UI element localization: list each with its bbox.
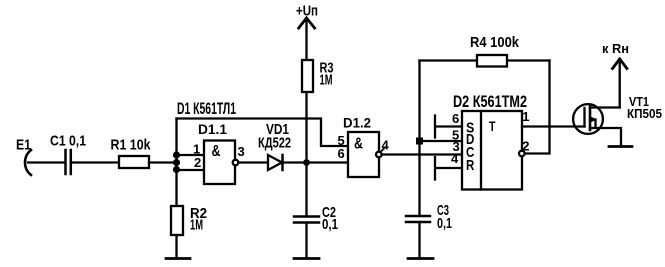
svg-text:R4 100k: R4 100k xyxy=(470,34,520,51)
node junction xyxy=(303,159,310,166)
svg-text:&: & xyxy=(354,135,363,152)
resistor R3 xyxy=(302,60,313,92)
wire R2 to ground xyxy=(175,235,177,258)
ground R2 xyxy=(166,257,190,260)
node k Rn arrow xyxy=(613,59,627,69)
capacitor C1 xyxy=(66,150,71,174)
node square junction xyxy=(416,138,423,145)
svg-text:КП505: КП505 xyxy=(627,106,662,121)
ground C2 xyxy=(294,257,319,260)
wire C1 to R1 xyxy=(72,161,119,163)
svg-text:2: 2 xyxy=(194,155,201,170)
svg-text:D1 К561ТЛ1: D1 К561ТЛ1 xyxy=(177,100,236,118)
svg-text:D2 К561ТМ2: D2 К561ТМ2 xyxy=(453,93,527,111)
svg-text:6: 6 xyxy=(452,111,459,126)
svg-text:к Rн: к Rн xyxy=(602,41,629,56)
svg-text:КД522: КД522 xyxy=(258,135,291,152)
wire main vertical +Up to C2 xyxy=(305,20,307,217)
wire feedback top to D1.2 pin5 xyxy=(177,119,349,147)
wire pin2 xyxy=(177,169,205,171)
op-amp D1.1 gate xyxy=(204,141,235,185)
svg-text:1M: 1M xyxy=(190,216,203,233)
resistor R4 xyxy=(477,55,507,67)
resistor R2 xyxy=(171,206,183,235)
pin 4 stub R xyxy=(435,157,462,180)
wire drain to load xyxy=(619,61,621,108)
wire R1 to input node xyxy=(149,161,177,163)
svg-text:T: T xyxy=(489,118,496,134)
svg-text:1M: 1M xyxy=(320,72,333,89)
svg-text:0,1: 0,1 xyxy=(322,216,338,233)
svg-text:+Uп: +Uп xyxy=(296,2,318,19)
pin 3 bubble xyxy=(233,160,239,166)
node junction dots xyxy=(173,151,180,158)
svg-text:1: 1 xyxy=(522,109,529,124)
svg-text:4: 4 xyxy=(451,151,459,166)
pin 4 bubble xyxy=(376,152,382,158)
ground VT1 xyxy=(609,145,632,148)
electrode E1 xyxy=(25,150,31,175)
wire D node to D2 pin5 xyxy=(420,140,463,142)
wire E1 to C1 xyxy=(28,161,65,163)
op-amp D1.2 gate xyxy=(348,132,379,177)
ground C3 xyxy=(408,257,433,260)
svg-text:R1 10k: R1 10k xyxy=(111,137,152,154)
wire VD1 to node xyxy=(283,161,307,163)
svg-text:0,1: 0,1 xyxy=(437,215,452,232)
svg-text:C1 0,1: C1 0,1 xyxy=(50,133,86,150)
power +Up arrow xyxy=(299,18,315,28)
capacitor C3 xyxy=(406,216,430,222)
wire D1.2 out to D2 pinC xyxy=(382,153,462,155)
svg-text:3: 3 xyxy=(238,144,245,159)
svg-text:D1.2: D1.2 xyxy=(343,115,371,131)
transistor VT1 xyxy=(573,104,603,134)
diode VD1 xyxy=(268,155,282,170)
wire C2 to ground xyxy=(305,223,307,259)
flip-flop D2 xyxy=(462,111,522,190)
svg-text:&: & xyxy=(212,143,221,160)
pin 2 bubble xyxy=(519,151,525,157)
wire R4 top xyxy=(420,59,550,61)
wire Q- to R4 right xyxy=(525,61,550,154)
wire D1.1 out to VD1 xyxy=(239,161,269,163)
svg-text:6: 6 xyxy=(338,146,345,161)
node input column xyxy=(175,119,177,207)
wire pin1 xyxy=(177,154,205,156)
wire R4 left vertical xyxy=(418,61,420,217)
wire C3 to ground xyxy=(418,222,420,258)
capacitor C2 xyxy=(294,217,319,223)
pin 6 stub S xyxy=(435,116,462,138)
svg-text:R: R xyxy=(466,157,474,174)
svg-text:D1.1: D1.1 xyxy=(198,121,227,137)
wire node to D1.2 pin6 xyxy=(307,161,349,163)
resistor R1 xyxy=(119,156,149,168)
wire Q to VT1 gate xyxy=(522,125,585,127)
